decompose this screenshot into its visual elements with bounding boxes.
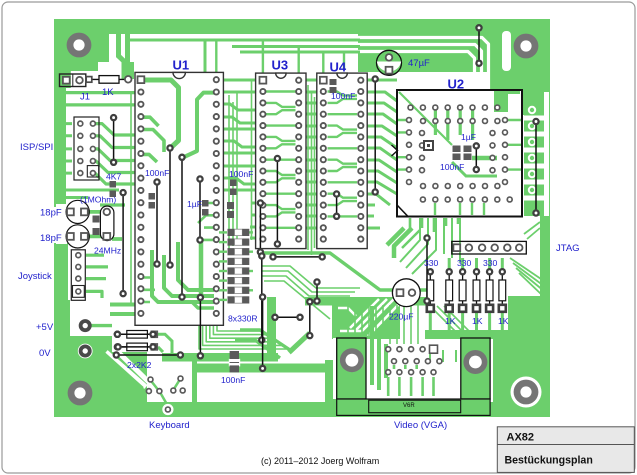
traces right-bottom region — [430, 350, 495, 362]
traces right of U4 toward U2 — [364, 80, 397, 228]
svg-text:U4: U4 — [330, 60, 347, 75]
svg-text:AX82: AX82 — [507, 432, 535, 444]
svg-text:100nF: 100nF — [221, 375, 245, 385]
svg-text:100nF: 100nF — [331, 91, 355, 101]
traces below U1 bottom — [110, 305, 163, 315]
svg-text:330: 330 — [424, 258, 439, 268]
JTAG fan traces — [387, 222, 544, 330]
traces left of U1 — [66, 93, 137, 298]
8x330R row traces — [219, 232, 253, 300]
svg-text:100nF: 100nF — [145, 168, 169, 178]
title block — [497, 427, 634, 473]
comb of vertical traces from bar down to VGA — [348, 305, 477, 344]
bottom center thick bars — [162, 353, 278, 362]
pour stubs at left edge near ISP — [64, 124, 72, 174]
board green pours — [54, 19, 550, 417]
mounting hole bottom-right — [511, 377, 542, 408]
connector J1 — [60, 70, 86, 88]
svg-text:JTAG: JTAG — [556, 243, 580, 254]
svg-text:100nF: 100nF — [229, 169, 253, 179]
svg-text:18pF: 18pF — [40, 208, 62, 219]
+5V pad — [81, 321, 90, 330]
right edge bar — [540, 19, 550, 417]
svg-text:4K7: 4K7 — [106, 172, 122, 182]
svg-text:1K: 1K — [102, 87, 114, 98]
svg-text:Bestückungsplan: Bestückungsplan — [505, 455, 593, 467]
connector JTAG — [452, 241, 527, 254]
svg-text:1µF: 1µF — [187, 199, 202, 209]
svg-text:ISP/SPI: ISP/SPI — [20, 142, 53, 153]
connector ISP/SPI — [74, 117, 99, 180]
resistor R 1K top — [86, 76, 131, 84]
svg-text:220µF: 220µF — [389, 312, 414, 322]
capacitor 18pF #2 — [66, 225, 89, 248]
white channels around diagonal pour boundary — [106, 352, 146, 387]
svg-text:+5V: +5V — [36, 322, 54, 333]
svg-text:1K: 1K — [472, 316, 483, 326]
svg-text:U2: U2 — [448, 77, 465, 92]
white channels in pour above VGA — [338, 299, 399, 336]
top-left corner block — [54, 19, 109, 71]
trace bundles: top horizontal — [119, 34, 361, 79]
mounting hole top-right — [514, 34, 539, 59]
top band solid right part — [358, 34, 550, 72]
capacitor 1µF / 100nF inside U2 — [453, 146, 472, 161]
resistor network 8x330R — [228, 229, 250, 304]
traces between U3 and U4 — [302, 80, 320, 228]
mounting hole bottom-left — [68, 381, 93, 406]
bottom-left pour — [54, 336, 147, 417]
U2 bottom stubs — [410, 218, 458, 232]
svg-text:Joystick: Joystick — [18, 271, 52, 282]
green diagonal boundary trace — [104, 353, 143, 388]
svg-text:47µF: 47µF — [408, 58, 430, 69]
svg-text:1K: 1K — [445, 316, 456, 326]
0V pad — [78, 344, 93, 359]
svg-text:24MHz: 24MHz — [94, 246, 121, 256]
second green band below bar — [193, 364, 340, 373]
capacitor 220uF — [392, 279, 420, 307]
white clearance notches in pours — [56, 204, 197, 402]
U2 interior stubs — [398, 72, 521, 215]
capacitor 47uF — [377, 50, 402, 75]
VGA pad region stubs — [388, 365, 433, 396]
stubs from 2x2K2 to bar — [158, 334, 172, 353]
VGA pin pads — [386, 345, 442, 374]
resistor (1MOhm) SMD — [93, 216, 100, 236]
bottom edge bar — [54, 402, 550, 417]
svg-text:8x330R: 8x330R — [228, 314, 258, 324]
svg-text:1K: 1K — [498, 316, 509, 326]
mounting hole top-left — [67, 33, 92, 58]
svg-text:J1: J1 — [80, 92, 90, 103]
vertical connecting bar to bottom bar — [192, 357, 197, 410]
traces between U1 and U3 — [220, 80, 259, 238]
top edge bar — [54, 19, 550, 34]
capacitor 100nF bottom SMD — [229, 351, 240, 372]
white clearance channels in top band — [358, 38, 489, 111]
capacitor 18pF #1 — [66, 200, 89, 223]
right thermal band beside U2 — [524, 96, 550, 216]
crystal bridges — [87, 212, 122, 239]
crystal 24MHz — [100, 206, 114, 241]
resistors 330 row — [427, 269, 506, 312]
IC U4 — [317, 73, 367, 249]
svg-text:1µF: 1µF — [461, 132, 476, 142]
svg-text:100nF: 100nF — [440, 162, 464, 172]
svg-text:U1: U1 — [173, 58, 190, 73]
U2 fan to lower-left — [400, 218, 460, 274]
svg-text:Keyboard: Keyboard — [149, 420, 190, 431]
IC U1 — [135, 72, 223, 325]
svg-text:330: 330 — [483, 258, 498, 268]
top-right corner block — [488, 19, 550, 90]
vertical channel traces between ICs — [131, 40, 344, 303]
svg-text:18pF: 18pF — [40, 233, 62, 244]
IC U2 outline — [397, 90, 522, 217]
svg-text:U3: U3 — [272, 58, 289, 73]
white slots in right thermal band — [523, 116, 544, 201]
svg-text:2x2K2: 2x2K2 — [127, 360, 152, 370]
jumper wire in U2 — [474, 143, 479, 172]
svg-text:(c) 2011–2012 Joerg Wolfram: (c) 2011–2012 Joerg Wolfram — [261, 456, 379, 466]
svg-text:0V: 0V — [39, 348, 51, 359]
svg-text:Video (VGA): Video (VGA) — [394, 420, 447, 431]
thermal pads right of U2 — [529, 107, 535, 193]
connector Joystick — [71, 250, 85, 300]
svg-text:V6R: V6R — [403, 403, 415, 409]
IC U3 — [256, 73, 306, 249]
svg-text:330: 330 — [457, 258, 472, 268]
resistors 2x2K2 — [115, 331, 158, 351]
bottom-right pour — [508, 296, 550, 417]
VGA connector — [333, 338, 490, 415]
svg-text:(1MOhm): (1MOhm) — [80, 195, 116, 205]
diagonal fan below U3/U4 — [199, 266, 360, 349]
small SMD capacitors — [110, 79, 337, 218]
+5V trace — [91, 324, 112, 327]
left edge strip — [54, 19, 66, 207]
VGA side pours — [325, 360, 337, 405]
white notch near top-right hole — [502, 31, 511, 71]
keyboard pads — [146, 376, 185, 415]
jumper wires — [111, 25, 539, 371]
traces above VGA — [372, 306, 386, 390]
U2 socket pads — [407, 105, 513, 202]
